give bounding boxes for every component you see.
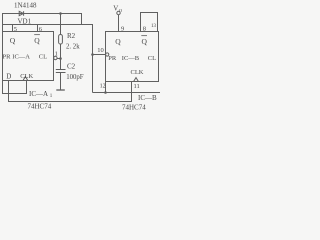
svg-text:Q: Q [10,36,16,45]
resistor R2 [59,35,63,45]
svg-text:IC—B: IC—B [138,94,157,102]
svg-text:74HC74: 74HC74 [122,103,146,110]
svg-text:2. 2k: 2. 2k [66,43,80,50]
transistor clk edge mark B [134,78,139,82]
svg-text:10: 10 [97,47,104,54]
transistor clk edge mark A [23,77,28,81]
svg-text:PR: PR [3,53,12,60]
diode VD1 [19,11,23,15]
svg-text:Q: Q [115,37,121,46]
wire CLK-A bottom [3,81,27,94]
wire R2 to C2 [60,44,62,70]
svg-text:C2: C2 [67,63,76,71]
svg-text:VD1: VD1 [18,18,32,26]
wire left rail [2,13,4,94]
node PR-B bubble [106,53,109,56]
op IC-A box [3,32,54,81]
node pin10 junction [91,53,94,56]
node CL junction [59,57,62,60]
wire pin8 feedback [141,13,158,32]
svg-text:11: 11 [134,83,140,90]
svg-text:1N4148: 1N4148 [14,1,37,9]
svg-text:13: 13 [151,24,157,29]
svg-text:8: 8 [143,25,146,32]
capacitor C2 [56,69,66,71]
svg-text:CLK: CLK [20,73,33,80]
svg-text:V: V [113,5,118,13]
node pin12 junction [104,91,107,94]
svg-text:IC—B: IC—B [122,55,140,62]
svg-text:PR: PR [108,55,117,62]
svg-text:R2: R2 [67,32,76,40]
wire bottom rail input [9,81,132,102]
svg-text:IC—A: IC—A [29,90,48,98]
op IC-B box [106,32,159,82]
svg-text:74HC74: 74HC74 [28,103,52,110]
svg-text:CL: CL [148,55,156,62]
wire pin12 stub [105,82,107,93]
svg-text:Q: Q [142,37,148,46]
svg-text:5: 5 [14,26,17,33]
svg-text:100pF: 100pF [66,74,84,81]
svg-text:1: 1 [55,50,58,57]
svg-text:D: D [6,73,11,81]
wire PR-B pin10 stub [93,54,106,56]
wire top rail [3,14,82,25]
node R2 top junction [60,14,62,35]
wire CL-A to junction [57,58,60,60]
svg-text:CL: CL [39,53,47,60]
ground [56,89,65,91]
wire upper Q bus [3,25,93,93]
svg-text:12: 12 [100,84,106,90]
wire pin9 stub [118,15,120,32]
wire pin5 stub [12,25,14,32]
wire pin6 stub [37,25,39,32]
svg-text:Q: Q [34,36,40,45]
wire bottom feedback to D pin 12 [93,92,161,94]
node CL-A bubble [54,56,57,59]
svg-text:9: 9 [121,25,124,32]
svg-text:IC—A: IC—A [12,53,30,60]
svg-text:CLK: CLK [131,69,144,76]
wire C2 to ground [60,73,62,91]
node Vo terminal [117,11,120,14]
